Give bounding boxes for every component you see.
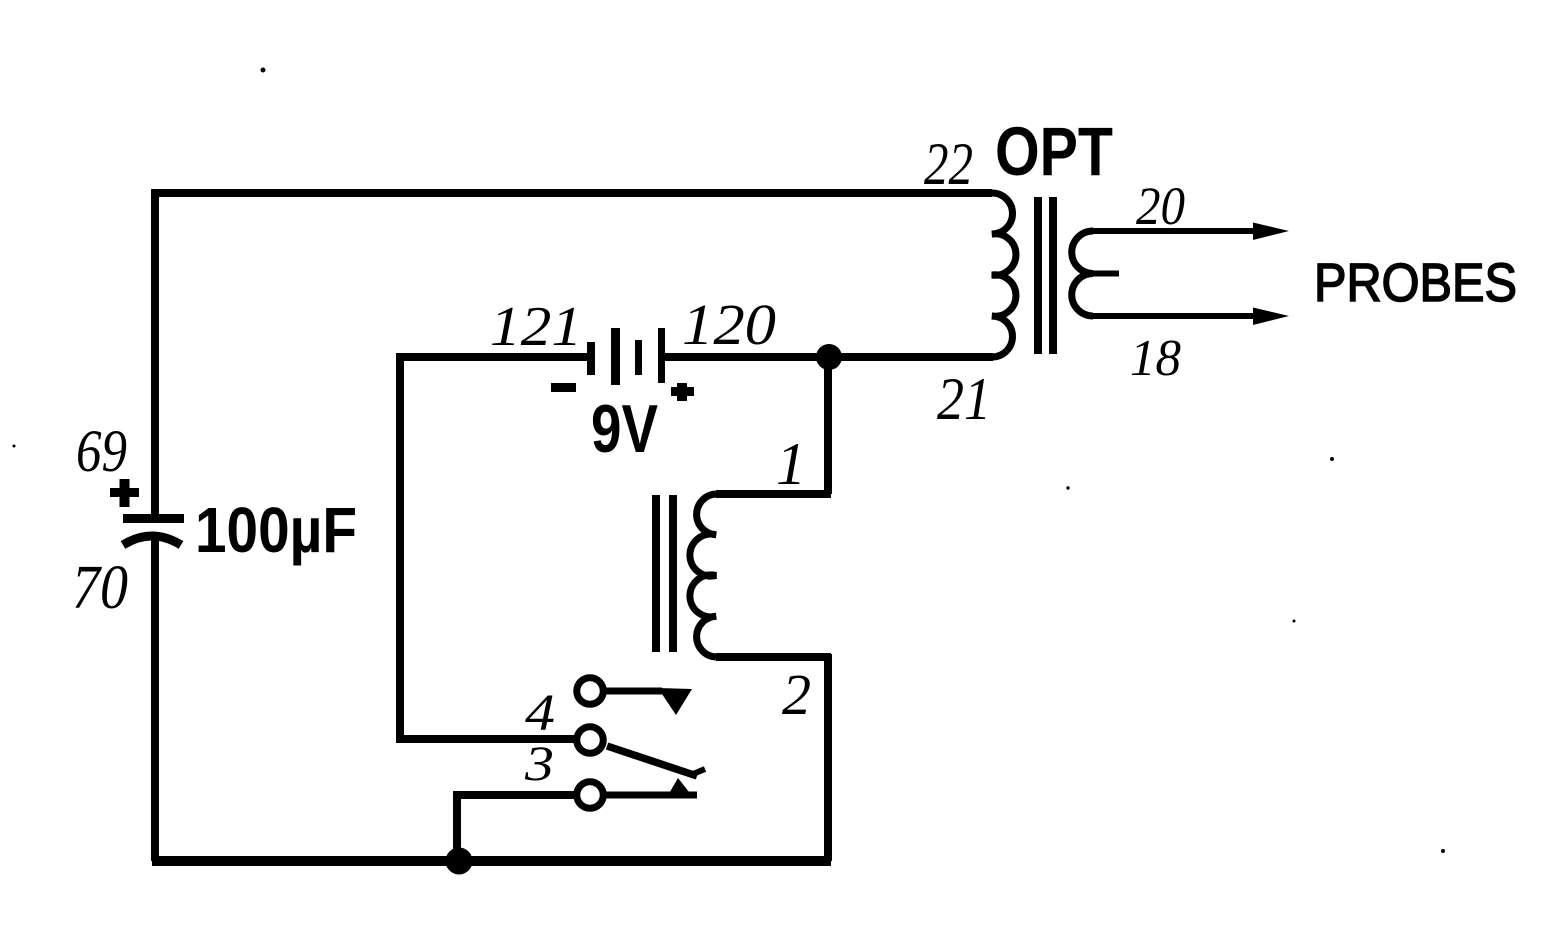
switch blade tip tick — [693, 769, 705, 774]
battery BT1 9V plates — [587, 342, 595, 375]
svg-text:100µF: 100µF — [195, 494, 357, 566]
OPT secondary center stub — [1093, 271, 1119, 277]
arrowhead pin 18 — [1253, 308, 1289, 326]
switch contact 3 circle — [577, 782, 604, 809]
switch pole arrowhead (down triangle) — [658, 688, 692, 715]
wire: pin 1 horizontal into driver coil — [716, 490, 831, 498]
OPT secondary winding (pins 20-18) — [1072, 231, 1093, 316]
capacitor polarity plus sign — [120, 479, 130, 507]
wire: vertical junction down to pin 1 — [824, 357, 832, 494]
svg-text:18: 18 — [1130, 330, 1181, 387]
wire: pin 21 lead from junction to OPT primary — [825, 353, 993, 361]
wire: vertical from 121 lead down to switch contact 4 — [396, 353, 404, 743]
switch contact 4 circle — [577, 727, 604, 754]
OPT primary winding (pins 22-21) — [992, 193, 1016, 357]
OPT core bars — [1034, 197, 1042, 354]
svg-text:2: 2 — [782, 662, 811, 727]
wire: pin 18 output lead — [1093, 313, 1258, 319]
battery plus sign — [677, 383, 687, 401]
wire: pin 2 horizontal from driver coil — [716, 653, 831, 661]
svg-text:20: 20 — [1136, 176, 1185, 236]
svg-text:4: 4 — [525, 685, 555, 742]
switch pole contact (top circle) — [577, 678, 604, 705]
svg-text:21: 21 — [937, 366, 991, 432]
svg-text:3: 3 — [524, 735, 554, 791]
svg-text:PROBES: PROBES — [1314, 253, 1517, 313]
wire: left vertical lower (cap bottom to node 70 / bottom rail) — [151, 535, 159, 861]
svg-text:120: 120 — [682, 292, 776, 357]
junction node at 120/21 — [816, 344, 842, 370]
driver transformer T1 winding (pins 1-2) — [690, 494, 716, 657]
switch blade from contact 4 — [607, 746, 697, 776]
svg-text:9V: 9V — [591, 391, 658, 467]
svg-text:1: 1 — [776, 431, 806, 497]
wire: left vertical upper (node 69 through cap top) — [151, 189, 159, 516]
wire: feed to switch contact 4 — [396, 735, 576, 743]
svg-text:70: 70 — [72, 554, 128, 622]
driver transformer T1 core bars — [652, 495, 660, 652]
wire: contact 3 right stub — [603, 792, 697, 799]
wire: vertical pin 2 down to bottom rail — [824, 654, 832, 861]
wire: contact 3 vertical to bottom rail — [453, 791, 461, 861]
svg-text:22: 22 — [924, 131, 973, 197]
capacitor C1 100uF top plate — [123, 514, 184, 523]
junction node on bottom rail — [446, 848, 473, 875]
wire: bottom rail — [152, 856, 831, 866]
wire: pin 20 output lead — [1093, 228, 1258, 234]
switch rest arrowhead (up triangle) — [667, 778, 693, 797]
arrowhead pin 20 — [1253, 223, 1289, 241]
wire: battery positive lead (120) to junction — [663, 353, 830, 361]
battery minus sign — [551, 383, 576, 392]
wire: battery negative lead (121 side) — [400, 353, 589, 361]
switch pole stub — [603, 688, 662, 695]
svg-text:121: 121 — [490, 296, 582, 358]
capacitor C1 100uF bottom curved plate — [123, 536, 181, 545]
wire: contact 3 left lead — [457, 791, 577, 799]
svg-text:OPT: OPT — [995, 113, 1113, 190]
svg-text:69: 69 — [76, 418, 127, 484]
wire: top horizontal (node 69 to pin 22) — [152, 189, 992, 197]
